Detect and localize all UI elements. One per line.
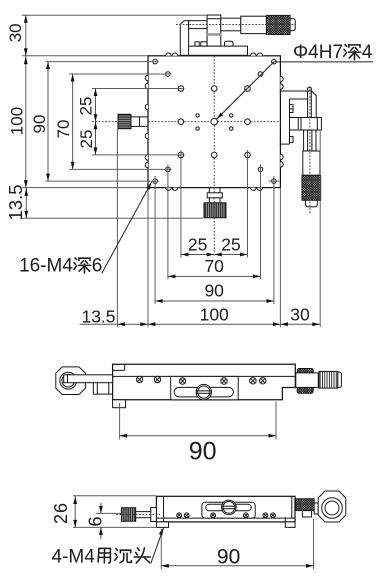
svg-text:30: 30 bbox=[290, 304, 310, 324]
bottom view: left thumbscrew bbox=[116, 508, 160, 522]
middle view: screw heads bbox=[136, 376, 266, 384]
extension line col25 left bbox=[180, 150, 182, 258]
extension line plate top left bbox=[22, 55, 148, 57]
svg-text:100: 100 bbox=[7, 107, 26, 135]
extension line knob bottom 13.5 bbox=[21, 217, 203, 219]
svg-text:90: 90 bbox=[204, 281, 224, 301]
label phi4H7 deep4 with leader bbox=[217, 42, 373, 119]
svg-text:90: 90 bbox=[30, 115, 49, 134]
extension line col70 right bbox=[260, 165, 262, 280]
middle view: body bbox=[113, 364, 296, 400]
svg-text:70: 70 bbox=[54, 120, 73, 139]
svg-text:6: 6 bbox=[92, 256, 103, 277]
svg-text:25: 25 bbox=[77, 97, 96, 116]
dimension 13.5 horizontal with leader text bbox=[80, 306, 148, 326]
extension line col90 left bbox=[154, 176, 156, 304]
dimension 25 vertical upper bbox=[77, 89, 98, 122]
extension line row70 top bbox=[69, 73, 172, 75]
top micrometer centerline bbox=[176, 24, 296, 26]
svg-text:13.5: 13.5 bbox=[81, 306, 115, 326]
extension line row90 bottom bbox=[46, 180, 159, 182]
extension line col25 right bbox=[247, 150, 249, 258]
dimension 25 25 horizontal bbox=[181, 235, 248, 257]
16 M4 mounting holes bbox=[153, 59, 276, 183]
bottom view: micrometer end-on with ring bbox=[296, 491, 346, 522]
top view: stage plate outline bbox=[148, 56, 280, 188]
middle view: left slide bracket with circles bbox=[56, 367, 86, 395]
bottom view: feet bbox=[156, 517, 295, 527]
svg-text:25: 25 bbox=[188, 235, 207, 255]
left lock thumbscrew knob bbox=[118, 114, 148, 128]
svg-text:30: 30 bbox=[6, 23, 25, 42]
four small pin holes around center bbox=[196, 114, 233, 131]
dimension 13.5 vertical left bbox=[5, 184, 28, 220]
right micrometer centerline bbox=[309, 86, 311, 214]
bottom view: dimension 6 bbox=[86, 503, 122, 539]
bottom view: dimension 90 bbox=[161, 519, 313, 569]
bottom view: dimension 26 bbox=[51, 496, 157, 528]
middle view: central slide plate with slot bbox=[171, 376, 239, 399]
extension line plate bottom left bbox=[22, 187, 148, 189]
svg-text:13.5: 13.5 bbox=[5, 184, 26, 220]
extension line row25 bottom bbox=[92, 154, 185, 156]
top micrometer head assembly bbox=[180, 15, 295, 55]
svg-text:25: 25 bbox=[77, 130, 96, 149]
dimension 100 horizontal bbox=[148, 304, 281, 326]
extension line plate left edge down bbox=[147, 188, 149, 328]
dimension 90 horizontal bbox=[155, 281, 274, 303]
extension line knob left 13.5 bbox=[116, 129, 118, 328]
centermark bottom-right hole bbox=[269, 180, 280, 182]
svg-text:4: 4 bbox=[362, 42, 373, 63]
middle view: dimension 90 bbox=[120, 402, 276, 466]
svg-text:90: 90 bbox=[189, 438, 217, 466]
svg-text:4-M4: 4-M4 bbox=[52, 546, 96, 567]
dimension 90 vertical bbox=[30, 62, 50, 182]
top view: centerline vertical bbox=[213, 36, 215, 257]
svg-text:25: 25 bbox=[221, 235, 240, 255]
middle view: arm to body bbox=[64, 375, 113, 394]
svg-text:6: 6 bbox=[86, 516, 106, 526]
dimension 100 vertical bbox=[7, 56, 27, 188]
extension line row70 bottom bbox=[69, 168, 172, 170]
svg-text:70: 70 bbox=[204, 256, 224, 276]
extension line row90 top bbox=[46, 61, 159, 63]
dimension 30 horizontal bbox=[280, 304, 319, 326]
svg-text:16-M4: 16-M4 bbox=[19, 256, 73, 277]
extension line col70 left bbox=[167, 165, 169, 280]
top view: centerline horizontal bbox=[92, 121, 281, 123]
dimension 30 vertical bbox=[6, 15, 28, 56]
svg-text:100: 100 bbox=[200, 304, 229, 324]
middle view: left foot bbox=[113, 400, 126, 408]
extension line plate right edge down bbox=[279, 188, 281, 328]
extension line row25 top bbox=[92, 88, 185, 90]
svg-text:26: 26 bbox=[51, 502, 71, 524]
right micrometer head assembly bbox=[280, 88, 322, 207]
dimension 70 vertical bbox=[54, 74, 75, 169]
center hole phi4H7 bbox=[211, 118, 218, 125]
bottom view: central slide plate bbox=[202, 500, 255, 518]
bottom view: body bbox=[156, 496, 295, 522]
extension line top 30 bbox=[22, 14, 207, 16]
label 16-M4 deep 6 with leader bbox=[19, 182, 152, 276]
dimension 70 horizontal bbox=[168, 256, 261, 279]
bottom view: screw heads bbox=[177, 513, 276, 518]
dimension 25 vertical lower bbox=[77, 122, 97, 155]
middle view: micrometer knurled ring, sleeve and end knob bbox=[296, 369, 342, 394]
label 4-M4 countersunk with leader bbox=[52, 528, 164, 568]
top view: edge bumps (carriage clamp pads) bbox=[145, 53, 283, 190]
svg-text:Φ4H7: Φ4H7 bbox=[293, 42, 343, 63]
extension line micrometer right 30 bbox=[319, 131, 321, 327]
bottom lock thumbscrew knob bbox=[204, 188, 226, 218]
svg-text:90: 90 bbox=[217, 546, 240, 569]
extension line col90 right bbox=[273, 176, 275, 304]
